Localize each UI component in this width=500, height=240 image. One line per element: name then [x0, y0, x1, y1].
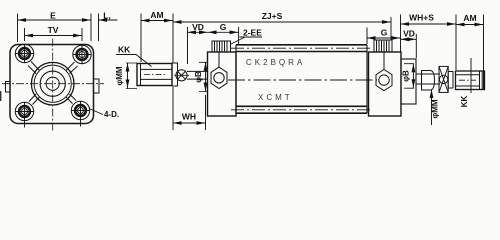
tie rod nut left	[211, 52, 227, 89]
svg-text:VD: VD	[403, 29, 415, 39]
svg-text:φMM: φMM	[431, 99, 440, 118]
svg-text:KK: KK	[118, 45, 131, 55]
cylinder head cap right	[369, 52, 402, 116]
corner boss top-right	[73, 45, 91, 63]
svg-text:φB: φB	[194, 71, 203, 83]
dimension WH	[173, 87, 206, 130]
dimension VD right	[401, 34, 417, 58]
corner boss bottom-left	[15, 102, 33, 120]
rod end circle with cross	[174, 70, 189, 81]
dimension G right	[367, 28, 401, 45]
thread step right	[448, 72, 453, 89]
svg-text:WH+S: WH+S	[409, 13, 434, 23]
rib to bottom-left hole	[29, 94, 40, 105]
rod sleeve right	[422, 71, 435, 91]
dimension ZJ+S	[173, 17, 391, 40]
center boss circles	[31, 62, 74, 105]
cylinder head cap left	[208, 52, 237, 116]
corner boss bottom-right	[71, 101, 89, 119]
rod collar left	[172, 63, 178, 86]
tie rod nut right	[376, 52, 392, 91]
dimension VD left	[188, 27, 209, 64]
label 2-EE with leader	[231, 28, 262, 45]
bolt hole top-right	[73, 45, 92, 64]
cylinder tube outline	[236, 45, 367, 113]
rod collar right with cross	[439, 66, 448, 92]
flange horizontal centerline	[2, 83, 104, 85]
label KK left with leader	[116, 45, 152, 67]
dimension E	[18, 14, 92, 43]
flange square outline	[10, 45, 94, 124]
flange vertical centerline	[52, 39, 54, 132]
dimension AM left	[141, 14, 173, 64]
rib to bottom-right hole	[66, 94, 76, 104]
tie rod top	[231, 45, 372, 52]
bolt hole bottom-right	[71, 101, 90, 127]
dimension WH+S	[401, 15, 457, 53]
dimension AM right	[456, 15, 484, 91]
flange left tab	[6, 82, 11, 93]
svg-text:2-EE: 2-EE	[243, 28, 262, 38]
svg-text:XCMT: XCMT	[258, 93, 293, 102]
dimension phiB left	[199, 62, 208, 91]
rod guide plate right	[401, 59, 416, 104]
flange right tab	[94, 79, 100, 93]
label 4-D	[89, 109, 119, 120]
rod thread block left	[137, 64, 172, 86]
rib to top-right hole	[66, 62, 78, 74]
dimension phiB right	[404, 64, 414, 88]
svg-text:E: E	[50, 11, 56, 21]
svg-text:AM: AM	[463, 13, 476, 23]
svg-text:WH: WH	[182, 112, 196, 122]
svg-text:φMM: φMM	[115, 66, 124, 85]
main centerline	[228, 79, 377, 81]
svg-text:4-D.: 4-D.	[104, 110, 119, 119]
svg-text:KK: KK	[460, 96, 469, 108]
piston rod left	[187, 71, 208, 79]
svg-text:CK2BQRA: CK2BQRA	[246, 58, 305, 67]
svg-text:ZJ+S: ZJ+S	[262, 11, 283, 21]
dimension phiMM right	[431, 90, 433, 126]
bolt hole bottom-left	[15, 102, 34, 128]
svg-text:G: G	[381, 28, 388, 38]
dimension L	[99, 14, 118, 42]
corner boss top-left	[15, 44, 33, 62]
svg-text:L,: L,	[103, 11, 111, 21]
rod thread right	[456, 71, 485, 90]
label KK right with leader	[460, 58, 471, 107]
bolt hole top-left	[15, 44, 34, 63]
dimension TV	[25, 28, 83, 41]
svg-text:AM: AM	[150, 10, 163, 20]
tie rod bottom	[231, 106, 372, 113]
svg-text:φB: φB	[402, 70, 411, 82]
rib to top-left hole	[28, 62, 40, 74]
port boss right	[374, 40, 392, 52]
dimension G left	[208, 27, 239, 44]
dimension phiMM left	[126, 63, 137, 89]
svg-text:TV: TV	[48, 25, 59, 35]
svg-text:VD: VD	[192, 22, 204, 32]
piston rod right	[416, 74, 440, 84]
port boss left	[212, 41, 231, 52]
svg-text:G: G	[220, 22, 227, 32]
scan smudge left edge	[0, 91, 2, 101]
